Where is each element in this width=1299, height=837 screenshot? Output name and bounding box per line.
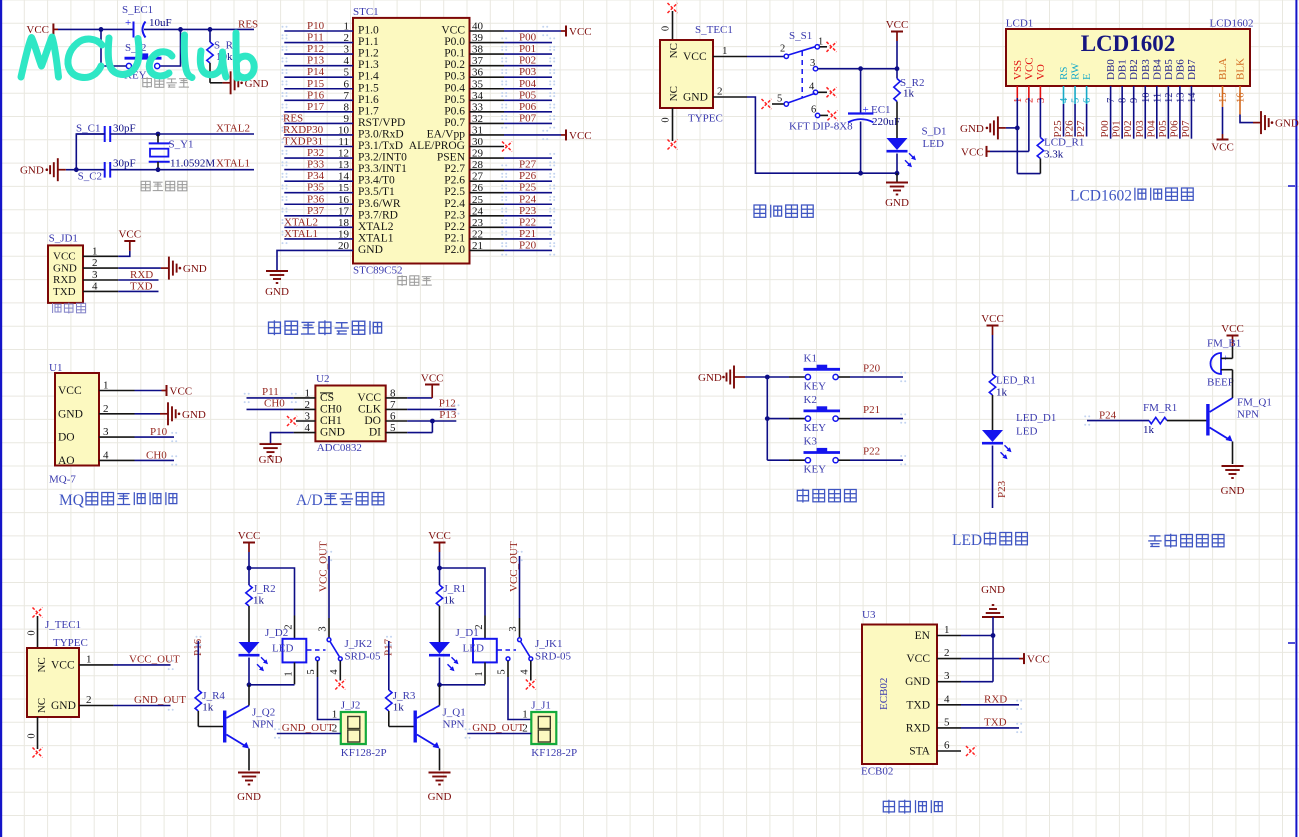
wire LED_D1 to P23 [992,446,994,509]
no connect S_S1 pin4 [827,87,837,97]
svg-text:A/D: A/D [296,492,323,509]
svg-text:LED: LED [463,643,484,655]
svg-text:P06: P06 [1168,120,1180,138]
wire pin 23 [470,226,505,228]
diode S_D1 (LED) [887,138,908,150]
svg-text:SRD-05: SRD-05 [345,651,382,663]
wire pin 32 [470,122,505,124]
svg-text:MQ-7: MQ-7 [49,474,76,486]
svg-text:VO: VO [1035,64,1047,80]
svg-text:CH0: CH0 [320,403,342,415]
svg-text:VCC: VCC [421,372,444,384]
no connect S_S1 pin6 [828,110,838,120]
svg-text:TXD: TXD [906,699,930,711]
wire net pin 9 [284,122,353,124]
svg-text:S_TEC1: S_TEC1 [695,24,733,36]
wire base [389,726,415,728]
svg-text:P0.1: P0.1 [444,48,465,60]
wire GND_OUT to terminal [277,733,341,735]
svg-text:FM_B1: FM_B1 [1207,338,1241,350]
svg-text:LCD1602: LCD1602 [1081,31,1176,56]
svg-text:P3.6/WR: P3.6/WR [358,198,401,210]
svg-text:13: 13 [1175,93,1186,104]
wire pin 28 [470,169,505,171]
wire S_D1 to GND [896,154,898,174]
svg-text:TXD: TXD [53,286,76,298]
svg-text:P1.1: P1.1 [358,36,379,48]
svg-text:FM_Q1: FM_Q1 [1237,397,1272,409]
resistor LCD_R1 [1037,138,1043,159]
svg-text:KF128-2P: KF128-2P [531,747,577,759]
svg-text:3.3k: 3.3k [1044,149,1064,161]
wire U3 pin1 [961,635,993,637]
svg-text:U3: U3 [862,609,876,621]
svg-text:XTAL2: XTAL2 [284,216,318,228]
svg-text:7: 7 [1106,98,1117,103]
svg-text:GND: GND [58,408,83,420]
junction U3 pin1 [991,633,996,638]
svg-text:RXD: RXD [984,693,1007,705]
svg-text:VCC: VCC [441,25,465,37]
wire VCC to buzzer [1232,336,1234,347]
capacitor EC1 [860,69,862,113]
svg-text:KF128-2P: KF128-2P [341,747,387,759]
svg-text:P05: P05 [519,89,537,101]
wire U2 CLK pin7 [386,408,408,410]
junction crystal top [156,132,161,137]
svg-text:1k: 1k [202,702,214,714]
svg-text:P10: P10 [307,20,325,32]
svg-text:VSS: VSS [1012,60,1024,80]
wire emitter to GND [439,749,441,771]
svg-text:S_JD1: S_JD1 [49,233,78,245]
ground GND (S_JD1) [161,267,169,269]
relay switch armature [330,642,339,657]
S_TEC1 bottom pin 0 [672,108,674,141]
wire pin 27 [470,180,505,182]
svg-text:NC: NC [36,698,48,713]
svg-text:E: E [1081,73,1093,80]
svg-text:DB5: DB5 [1163,59,1175,80]
svg-text:VCC: VCC [357,392,381,404]
wire XTAL2 net [76,133,104,135]
svg-text:S_S1: S_S1 [789,30,812,42]
svg-text:VCC: VCC [26,24,49,36]
svg-text:XTAL1: XTAL1 [284,228,318,240]
key K1 (push button) [767,376,789,378]
wire pin 40 to VCC [470,30,505,32]
svg-text:J_JK2: J_JK2 [345,638,373,650]
svg-text:P12: P12 [439,397,456,409]
svg-text:PSEN: PSEN [437,152,466,164]
wire VCC to LED_R1 [992,335,994,374]
wire pin 37 [470,65,505,67]
wire pin 25 [470,203,505,205]
wire pin 35 [470,88,505,90]
mcu STC1 body [353,18,470,264]
power VCC (U3) [1019,658,1024,660]
relay J_JK1 coil [473,639,497,663]
wire lcd pin16 BLK [1239,86,1241,115]
svg-text:DB6: DB6 [1174,59,1186,80]
key column wire [766,377,768,460]
svg-text:P33: P33 [307,159,325,171]
svg-text:GND: GND [53,262,77,274]
svg-text:P01: P01 [1111,120,1123,137]
junction S_R2 top [895,66,900,71]
junction at S_EC1 right [178,27,183,32]
no connect pin 30 [470,146,505,148]
wire caps left side [76,134,104,170]
wire lcd pin 12 [1167,86,1169,139]
svg-text:10: 10 [1141,93,1152,104]
title 单片机最小系统 [269,320,281,335]
key K2 (push button) [767,418,789,420]
svg-text:P23: P23 [996,480,1008,498]
svg-text:LED: LED [272,643,293,655]
crystal S_Y1 [157,134,159,143]
wire U2 CH0 [294,408,316,410]
title 蜂鸣器电路 [1148,536,1161,547]
wire relay pin5 to terminal [508,677,531,720]
key K3 (push button) [767,459,789,461]
svg-text:P35: P35 [307,182,325,194]
svg-text:P27: P27 [519,159,537,171]
svg-text:P17: P17 [307,101,325,113]
svg-text:DB7: DB7 [1186,59,1198,80]
svg-text:0: 0 [27,630,38,635]
svg-text:S_C1: S_C1 [76,123,100,135]
svg-text:P2.2: P2.2 [444,221,465,233]
svg-text:P3.2/INT0: P3.2/INT0 [358,152,407,164]
wire key S_J2 right side up [160,29,181,66]
resistor J_R2 [248,568,250,585]
junction crystal bottom [156,167,161,172]
svg-text:VCC: VCC [1211,142,1234,154]
svg-text:2: 2 [1024,98,1035,103]
wire S_S1 pin3 to VCC node [818,68,897,70]
svg-text:11.0592M: 11.0592M [170,158,215,170]
ground GND (J_Q1) [429,772,451,774]
ground GND (buzzer) [1222,465,1244,467]
svg-text:5: 5 [777,94,782,105]
svg-text:1: 1 [332,709,338,721]
svg-text:P13: P13 [307,55,325,67]
wire lcd pin 11 [1156,86,1158,139]
wire S_JD1 pin2 to GND [118,267,161,269]
svg-text:GND: GND [1275,118,1299,130]
resistor S_R2 [896,69,898,79]
svg-text:GND: GND [182,409,206,421]
svg-text:P3.1/TxD: P3.1/TxD [358,140,403,152]
wire U3 pin3 [961,681,993,683]
capacitor S_C2 [104,162,106,178]
wire to GND (crystal) [66,169,77,171]
svg-text:P24: P24 [519,193,537,205]
diode J_D1 (LED) [429,642,450,654]
no connect U3 STA [966,746,976,756]
svg-text:VCC: VCC [53,251,76,263]
wire net pin 10 [284,134,353,136]
svg-text:STA: STA [909,746,930,758]
wire pin 29 [470,157,505,159]
svg-text:VCC: VCC [428,530,451,542]
svg-text:SRD-05: SRD-05 [535,651,572,663]
svg-text:P2.4: P2.4 [444,198,465,210]
title 按键电路 [797,489,808,503]
svg-text:GND: GND [183,263,207,275]
wire pin 21 [470,249,505,251]
wire collector [439,685,441,706]
wire lcd pin3 VO [1039,86,1041,98]
svg-text:2: 2 [717,86,723,98]
wire net pin 18 [284,226,353,228]
svg-text:MQ: MQ [59,492,84,509]
wire base [198,726,224,728]
svg-text:CS: CS [320,392,334,404]
svg-text:1: 1 [86,653,92,665]
svg-text:CH0: CH0 [264,397,285,409]
svg-text:P1.2: P1.2 [358,48,379,60]
svg-text:P05: P05 [1157,120,1169,138]
title 电源电路 [754,205,766,217]
wire emitter to GND [248,749,250,771]
svg-text:VCC_OUT: VCC_OUT [508,541,520,592]
svg-text:VCC: VCC [886,19,909,31]
svg-text:VCC: VCC [118,228,141,240]
wire lcd pin 13 [1179,86,1181,139]
svg-text:EA/Vpp: EA/Vpp [427,128,466,140]
svg-text:1k: 1k [393,702,405,714]
resistor J_R4 [195,690,201,711]
svg-text:P04: P04 [519,78,537,90]
no connect S_TEC1 bottom [668,140,678,150]
wire U3 pin5 TXD [961,727,1019,729]
svg-text:NPN: NPN [252,719,274,731]
svg-text:P0.2: P0.2 [444,59,465,71]
svg-text:GND: GND [905,676,930,688]
svg-text:5: 5 [306,669,317,674]
resistor FM_R1 [1149,417,1167,423]
svg-text:1: 1 [1013,98,1024,103]
wire pin 24 [470,215,505,217]
svg-text:P27: P27 [1075,120,1087,138]
svg-text:P0.3: P0.3 [444,71,465,83]
power VCC (mcu pin 40) [561,30,566,32]
svg-text:P3.0/RxD: P3.0/RxD [358,128,404,140]
junction caps-GND [74,167,79,172]
svg-text:VCC: VCC [1023,57,1035,80]
svg-text:J_R4: J_R4 [202,690,225,702]
svg-text:U2: U2 [316,373,329,385]
wire net pin 5 [284,76,353,78]
diode J_D2 (LED) [239,642,260,654]
svg-text:15: 15 [1218,93,1229,104]
svg-text:4: 4 [329,669,340,675]
svg-text:P21: P21 [863,404,880,416]
svg-text:TXD: TXD [984,716,1007,728]
svg-text:XTAL1: XTAL1 [358,232,394,244]
no connect S_S1 pin5 [762,99,772,109]
resistor S_R1 [209,29,211,42]
svg-text:RW: RW [1070,62,1082,80]
wire GND_OUT to terminal [467,733,531,735]
svg-text:GND: GND [259,454,283,466]
svg-text:LED: LED [952,532,982,549]
svg-text:VCC: VCC [1027,654,1050,666]
svg-text:P20: P20 [863,363,881,375]
wire U1 DO [135,436,175,438]
svg-text:1k: 1k [253,595,265,607]
svg-text:P31: P31 [306,136,323,148]
svg-text:S_D1: S_D1 [922,126,947,138]
svg-text:LED_R1: LED_R1 [996,375,1036,387]
junction U2 DO/DI [430,419,435,424]
svg-text:2: 2 [780,44,785,55]
svg-text:J_R2: J_R2 [253,583,276,595]
transistor J_Q1 (NPN) [414,711,417,743]
svg-text:2: 2 [944,647,950,659]
svg-text:1k: 1k [1143,424,1155,436]
wire pin 36 [470,76,505,78]
svg-text:J_Q2: J_Q2 [252,707,275,719]
svg-text:10uF: 10uF [149,17,172,29]
wire P21 [838,418,850,420]
svg-text:DB2: DB2 [1128,59,1140,80]
wire lcd pin2 VCC [1028,86,1030,98]
svg-text:P13: P13 [439,409,457,421]
wire net pin 6 [284,88,353,90]
wire LED to node [439,658,441,685]
svg-text:P3.3/INT1: P3.3/INT1 [358,163,407,175]
svg-text:VCC: VCC [58,385,82,397]
svg-text:P26: P26 [1064,120,1076,138]
no connect J_TEC1 bottom [33,748,43,758]
svg-text:ECB02: ECB02 [861,766,893,778]
wire U2 CS [294,397,316,399]
svg-text:GND: GND [358,244,383,256]
svg-text:3: 3 [318,626,329,631]
ground GND (mcu) [266,270,288,272]
wire relay pin5 to terminal [318,677,341,720]
svg-text:P11: P11 [307,32,324,44]
svg-text:J_J2: J_J2 [341,700,361,712]
wire pin 39 [470,42,505,44]
buzzer FM_B1 [1211,353,1222,374]
junction LED bottom node [247,682,252,687]
wire U2 DI pin5 [386,432,408,434]
wire lcd pin 4 [1063,86,1065,104]
transistor J_Q2 (NPN) [223,711,226,743]
wire VCC node [248,552,250,568]
switch linkage (dashed) [307,649,326,651]
svg-text:GND: GND [51,700,76,712]
ground GND (lcd right) [1253,122,1261,124]
wire lcd pin15 BLA [1222,86,1224,107]
svg-text:BLK: BLK [1235,58,1247,80]
svg-text:GND: GND [265,286,289,298]
svg-text:DB1: DB1 [1117,59,1129,80]
svg-text:P07: P07 [1180,120,1192,138]
svg-text:P03: P03 [519,66,537,78]
svg-text:BLA: BLA [1217,58,1229,80]
connector J_TEC1 body [27,648,79,717]
wire to relay coil top [249,568,295,616]
svg-text:KEY: KEY [804,381,827,393]
svg-text:XTAL1: XTAL1 [216,158,250,170]
svg-text:P20: P20 [519,239,537,251]
junction at VCC/S_J2 [99,27,104,32]
svg-text:CH1: CH1 [320,415,342,427]
no connect relay pin 4 [526,680,536,690]
transistor FM_Q1 (NPN) [1206,404,1209,436]
svg-text:ALE/PROG: ALE/PROG [409,140,465,152]
wire U1 pin2 to GND [135,413,161,415]
wire to relay coil top [440,568,486,616]
svg-text:VCC: VCC [981,313,1004,325]
svg-text:LCD1602: LCD1602 [1070,188,1132,205]
svg-text:16: 16 [1236,93,1247,104]
svg-text:5: 5 [1071,98,1082,103]
svg-text:VCC: VCC [238,530,261,542]
svg-text:6: 6 [1082,98,1093,103]
wire lcd pin 7 [1110,86,1112,139]
svg-text:VCC: VCC [906,653,930,665]
svg-text:P2.0: P2.0 [444,244,465,256]
svg-text:30pF: 30pF [113,158,136,170]
svg-text:P0.5: P0.5 [444,94,465,106]
svg-text:P1.0: P1.0 [358,25,379,37]
svg-text:P1.3: P1.3 [358,59,379,71]
svg-text:P07: P07 [519,112,537,124]
module U3 body (ECB02) [862,625,937,765]
svg-text:VCC: VCC [170,386,193,398]
svg-text:GND: GND [237,791,261,803]
svg-text:P37: P37 [307,205,325,217]
no connect relay pin 4 [335,680,345,690]
wire pin 38 [470,53,505,55]
svg-text:P0.7: P0.7 [444,117,465,129]
svg-text:RXD: RXD [53,274,76,286]
svg-text:RS: RS [1058,67,1070,80]
wire P20 [838,376,850,378]
wire S_JD1 pin1 to VCC [118,251,130,256]
junction at S_R1 top [208,27,213,32]
svg-text:KEY: KEY [804,464,827,476]
svg-text:ECB02: ECB02 [878,678,890,710]
svg-text:FM_R1: FM_R1 [1143,402,1177,414]
svg-text:P16: P16 [307,89,325,101]
wire U3 pin4 RXD [961,704,1019,706]
svg-text:XTAL2: XTAL2 [358,221,394,233]
svg-text:P25: P25 [1052,120,1064,138]
svg-text:VCC: VCC [1221,323,1244,335]
J_TEC1 top pin 0 [37,616,39,648]
title 蓝牙模块 [883,800,894,814]
gray note 按键复位 [143,77,152,88]
junction key K1 [765,375,770,380]
svg-text:GND: GND [960,123,984,135]
svg-text:CLK: CLK [358,403,382,415]
wire S_EC1 to RES node [144,28,254,30]
resistor J_R3 [386,690,392,711]
svg-text:EC1: EC1 [871,104,891,116]
svg-text:J_Q1: J_Q1 [443,707,466,719]
svg-text:VCC: VCC [961,147,984,159]
svg-text:11: 11 [1152,93,1163,103]
wire lcd pin 8 [1121,86,1123,139]
terminal J_J1 body (KF128-2P) [531,712,556,744]
